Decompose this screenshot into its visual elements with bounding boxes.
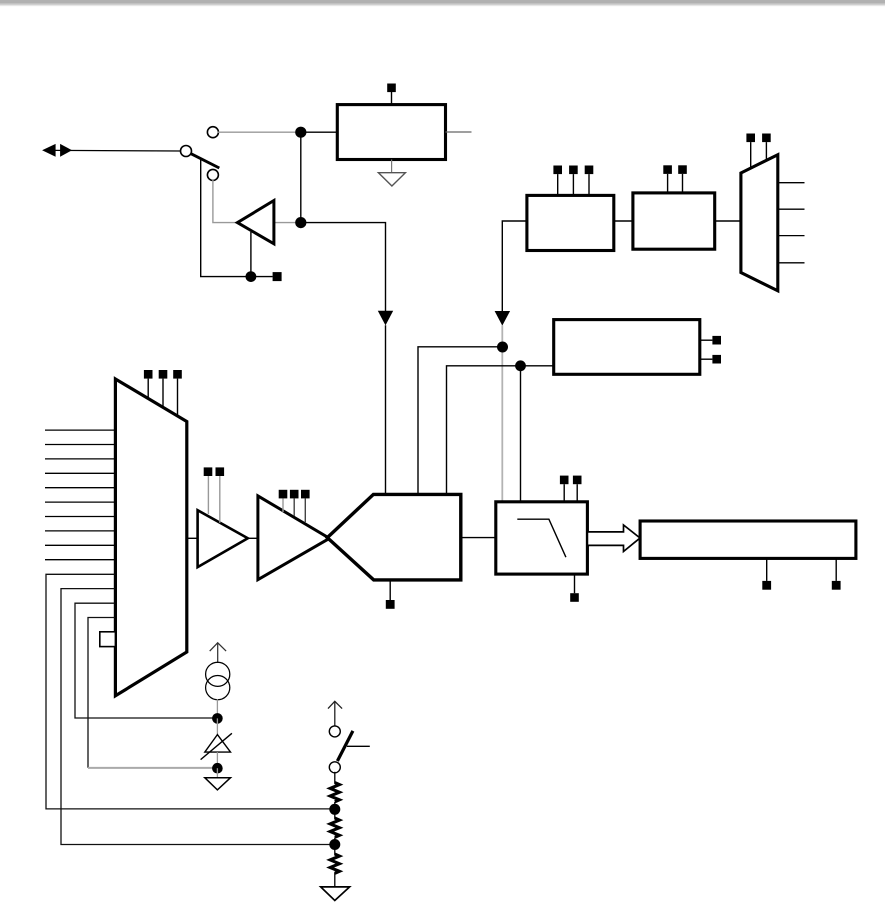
ref switch up arrow [328, 701, 342, 725]
funnel modulator shape [327, 494, 461, 580]
filter bottom square pin [570, 574, 579, 602]
wire dot left and down to funnel [418, 347, 503, 495]
wire V2 right and down to arrowhead [301, 223, 386, 311]
big mux top square pins [144, 370, 182, 416]
wire arrow to funnel top [385, 325, 387, 494]
ref switch stub line [347, 745, 370, 747]
wire mux to amp1 [187, 537, 198, 539]
junction dot under buffer [246, 271, 257, 282]
wire funnel output to filter [461, 537, 496, 539]
filter box [496, 502, 588, 574]
box3 [554, 320, 700, 375]
block arrow filter to long box [587, 525, 640, 552]
box A top square pin [387, 84, 396, 105]
right mux top square pins [746, 134, 770, 169]
box A output stub [446, 131, 472, 133]
bus wire d to diode node [88, 618, 213, 768]
mux notch tab [100, 632, 116, 647]
buffer B1 left-pointing [237, 201, 274, 244]
switch SW1 throw A contact [207, 127, 218, 138]
wire dot down to filter top [520, 366, 522, 502]
junction dot current source [212, 713, 223, 724]
right mux trapezoid [741, 155, 778, 291]
wire current source to node [216, 699, 218, 714]
switch SW1 blade [191, 154, 220, 168]
filter top square pins [560, 476, 582, 502]
wire buffer input to node V2 [274, 222, 296, 224]
wire diode to node2 [216, 752, 218, 768]
wire blade tap down and right [201, 160, 246, 277]
gray wire down to filter top [501, 325, 503, 502]
arrowhead into filter path [495, 311, 511, 326]
box3 right square pins [700, 336, 721, 364]
wire node to diode [216, 718, 218, 734]
top gray bar [0, 0, 885, 7]
bus wire a to R-ladder top dot [46, 574, 330, 809]
amp1 top square pins [204, 467, 224, 522]
ground ref ladder [321, 887, 350, 901]
big mux parallelogram [115, 379, 186, 696]
wire contact B to R1 [334, 772, 336, 784]
ref switch contact A [329, 726, 340, 737]
burnout diode triangle with slash [201, 733, 232, 759]
ref switch blade [337, 731, 353, 761]
wire throw B to buffer output [213, 180, 237, 223]
wire R3 to ground [334, 873, 336, 887]
ref switch contact B [329, 762, 340, 773]
resistor R3 [330, 838, 339, 874]
junction dot diode [212, 763, 223, 774]
ground below box A [378, 160, 405, 187]
switch SW1 throw B contact [207, 169, 218, 180]
bidirectional arrow AIN terminal [42, 144, 72, 157]
resistor R2 [330, 802, 339, 837]
box A [337, 105, 445, 160]
bus wire b to R-ladder mid dot [61, 589, 330, 845]
amp1 triangle [198, 510, 248, 567]
ground under diode [205, 768, 231, 790]
resistor R1 [330, 783, 339, 802]
bus wire c to current-source node [75, 603, 213, 718]
right mux output lines [778, 183, 805, 263]
junction dot on gray wire [497, 342, 508, 353]
filter response curve [517, 519, 566, 557]
current source circles [206, 662, 230, 700]
node V1 dot [295, 127, 306, 138]
box2 top square pins [663, 165, 687, 193]
switch SW1 common contact [181, 146, 192, 157]
junction dot at x520 [515, 360, 526, 371]
wire box1 to box2 [614, 220, 633, 222]
wire box2 to right mux [715, 220, 741, 222]
funnel bottom square pin [386, 580, 395, 609]
long box [640, 521, 856, 558]
box1 [527, 195, 614, 250]
wire AIN to switch common [54, 149, 181, 152]
wire throw A to node V1 [218, 131, 296, 133]
junction dot R2/R3 [329, 839, 340, 850]
wire V1 to V2 [300, 132, 302, 222]
box1 top square pins [553, 166, 593, 196]
box2 [633, 193, 715, 249]
amp2 triangle [258, 496, 330, 580]
amp2 top square pins [279, 490, 310, 522]
wire V1 to box A [301, 131, 338, 133]
wire amp1 to amp2 [248, 537, 258, 539]
wire box1 input down to arrowhead [502, 221, 527, 311]
node V2 dot [295, 217, 306, 228]
wire box3 left and down to funnel [447, 366, 554, 495]
wire buffer bottom to dot [250, 232, 252, 277]
junction dot R1/R2 [329, 804, 340, 815]
arrowhead into funnel path [378, 311, 393, 326]
current source up arrow [210, 643, 226, 663]
mux input lines x10 [45, 430, 115, 560]
long box bottom square pins [762, 558, 840, 589]
buffer control square pin [255, 272, 282, 281]
